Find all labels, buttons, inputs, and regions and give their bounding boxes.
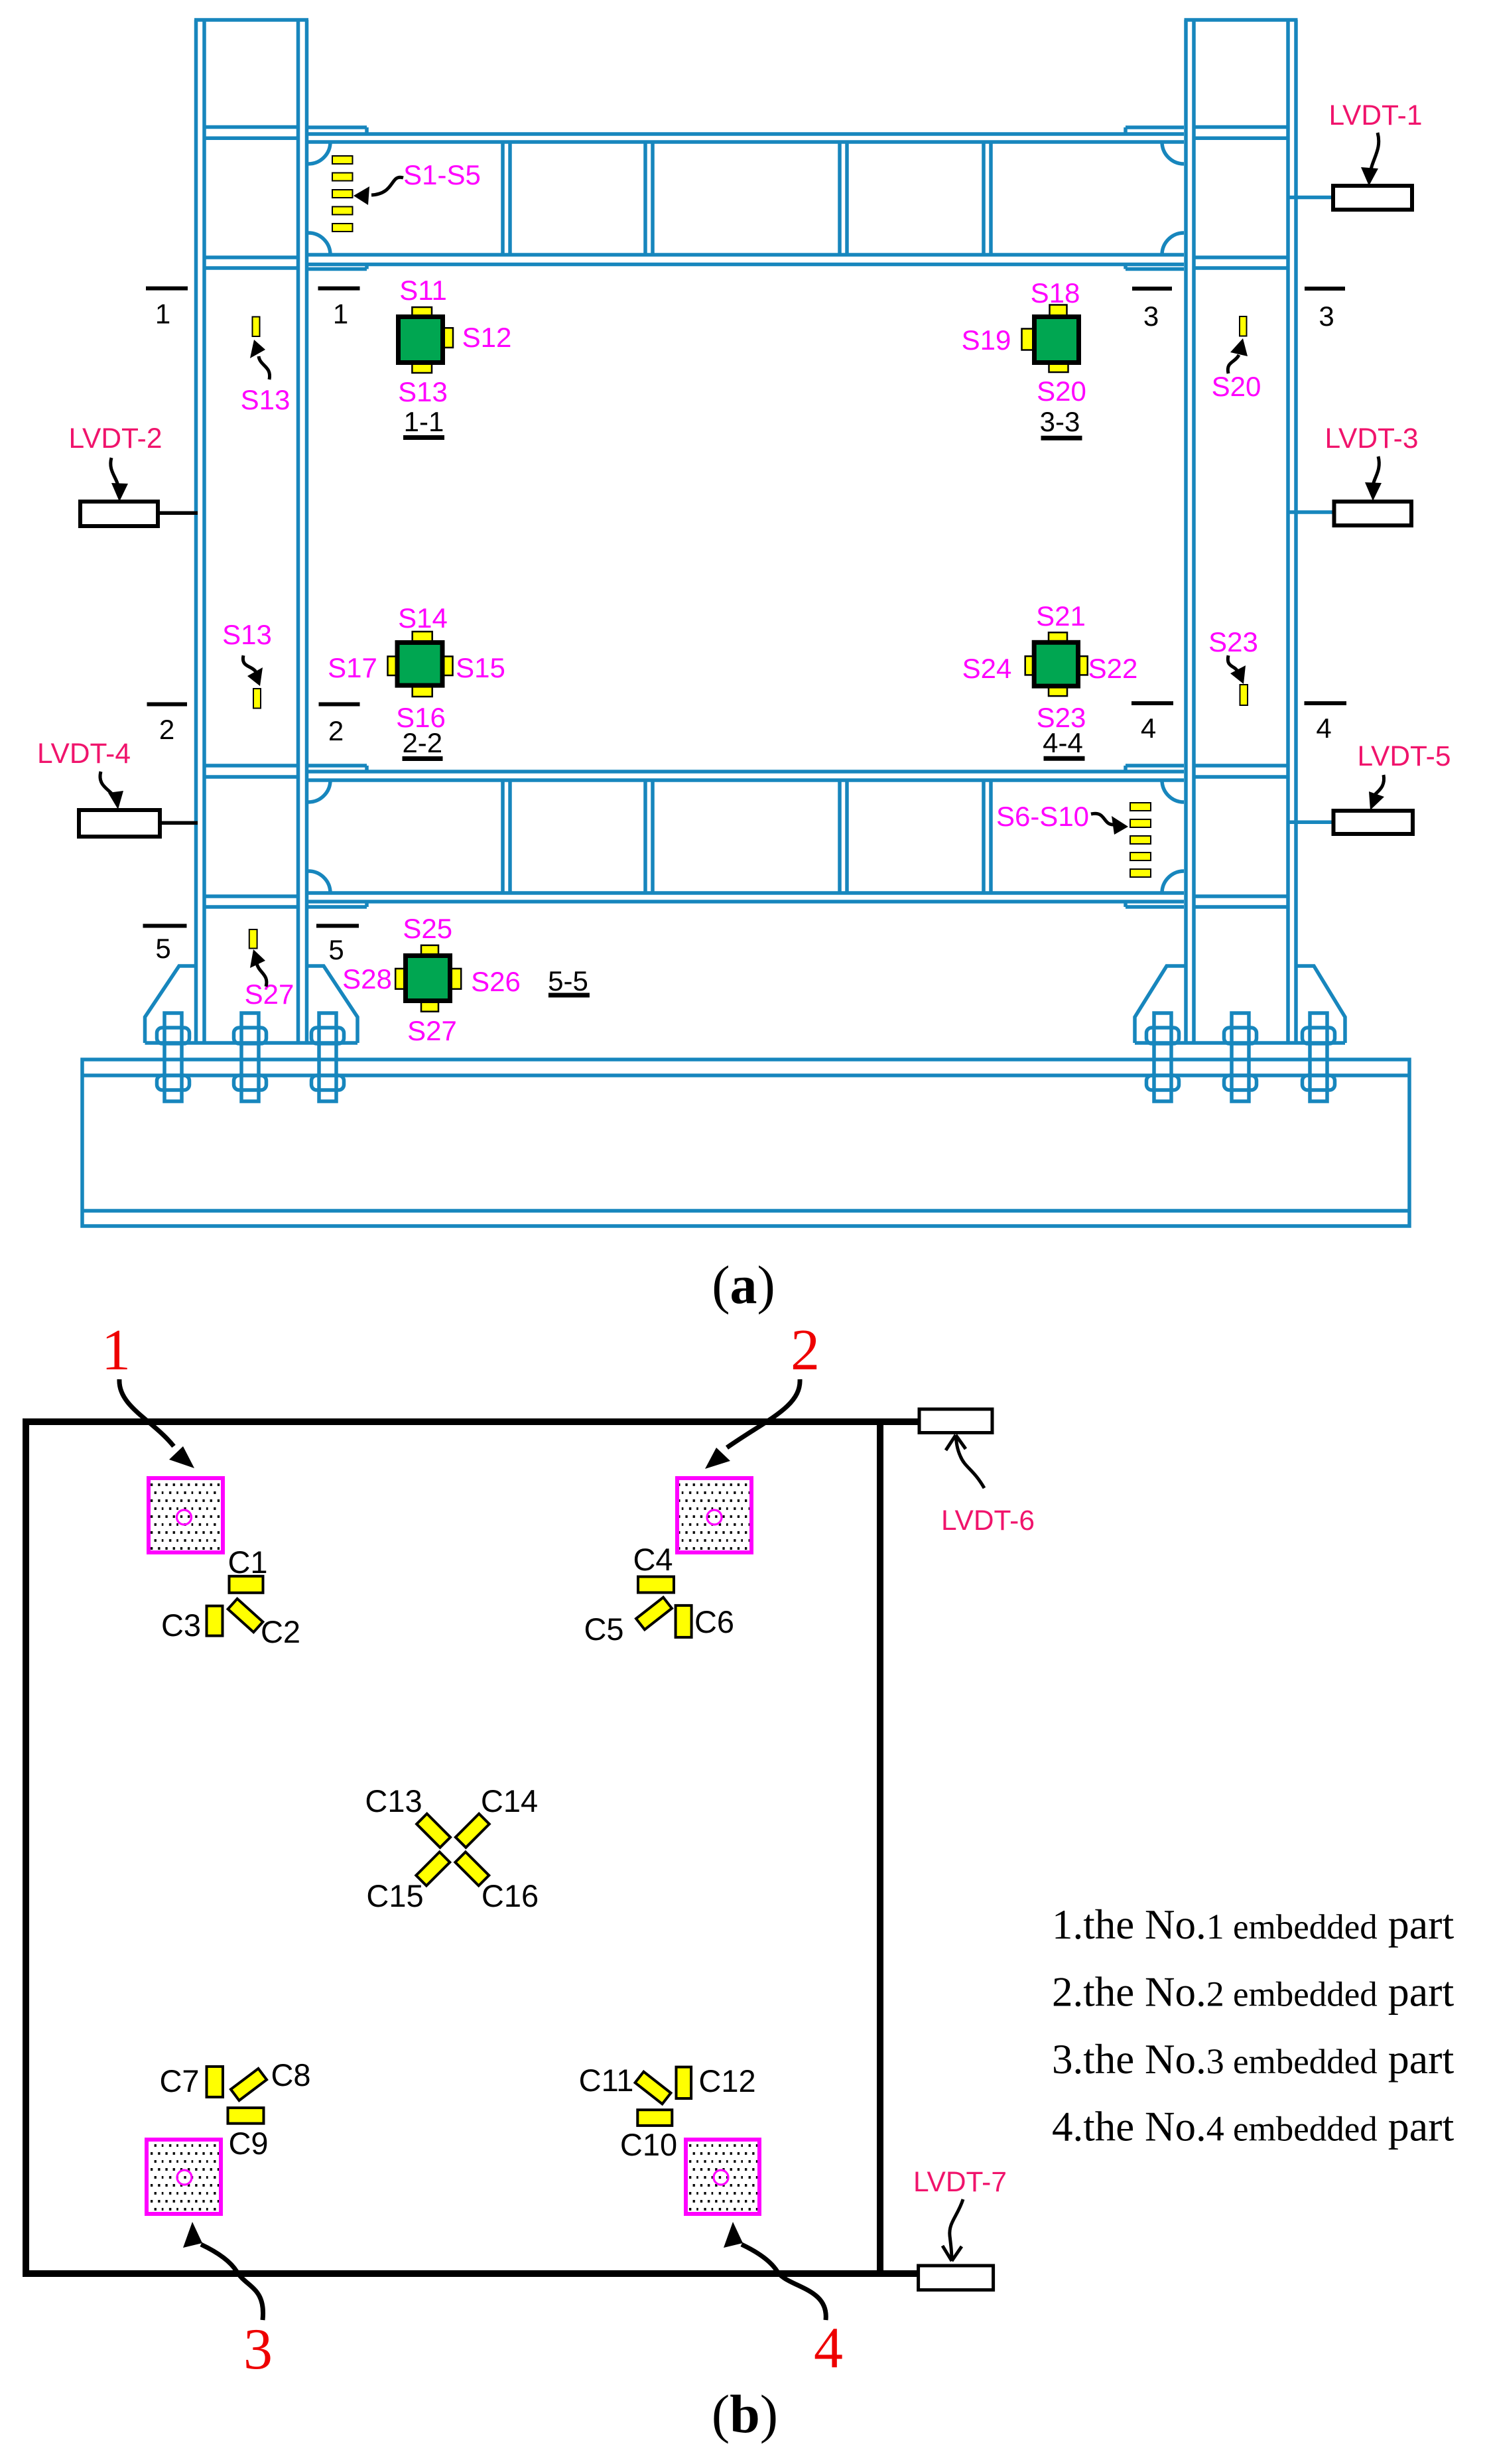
svg-text:2: 2	[159, 714, 174, 745]
gauge C16	[455, 1852, 489, 1885]
svg-text:C1: C1	[227, 1544, 267, 1580]
section mark 2	[147, 703, 188, 707]
svg-text:3: 3	[1319, 301, 1334, 332]
arrow S27	[257, 963, 267, 987]
svg-text:S27: S27	[407, 1015, 457, 1046]
LVDT-7 sensor	[883, 2270, 919, 2277]
svg-text:3: 3	[1143, 301, 1159, 332]
LVDT-3 connector	[1289, 510, 1334, 514]
section view 4-4 green square	[1049, 632, 1067, 643]
svg-text:S1-S5: S1-S5	[403, 159, 481, 190]
gauge C15	[416, 1852, 450, 1885]
strain gauges S6-S10	[1130, 803, 1151, 811]
arrow from 4 to embedded part No.4	[742, 2244, 826, 2320]
column continuity plate lines	[204, 125, 298, 129]
beam web stiffeners	[501, 780, 505, 893]
svg-text:2: 2	[791, 1318, 820, 1383]
svg-text:LVDT-1: LVDT-1	[1329, 100, 1423, 131]
anchor bolt at x=261	[157, 1013, 190, 1101]
svg-text:S13: S13	[241, 384, 291, 415]
svg-text:4: 4	[1141, 713, 1156, 744]
arrow S23	[1228, 655, 1238, 671]
gauge S23 (right column web)	[1240, 685, 1248, 705]
LVDT-6 sensor	[883, 1418, 919, 1425]
arrow from 3 to embedded part No.3	[201, 2244, 263, 2320]
svg-text:3.the No.3 embedded part: 3.the No.3 embedded part	[1052, 2035, 1454, 2083]
anchor bolt at x=377	[234, 1013, 267, 1101]
LVDT-4 arrow	[100, 772, 114, 797]
svg-text:C2: C2	[261, 1614, 300, 1649]
svg-text:5: 5	[328, 934, 344, 965]
section mark 3	[1132, 287, 1172, 291]
svg-text:2.the No.2 embedded part: 2.the No.2 embedded part	[1052, 1968, 1454, 2016]
svg-text:4.the No.4 embedded part: 4.the No.4 embedded part	[1052, 2103, 1454, 2150]
gauge C14	[456, 1814, 489, 1848]
gauge C2	[228, 1599, 263, 1632]
section view 5-5 green square	[421, 945, 438, 956]
gauge C13	[417, 1814, 450, 1848]
svg-text:S26: S26	[471, 966, 521, 997]
svg-text:LVDT-6: LVDT-6	[941, 1505, 1035, 1537]
anchor bolt at x=1870	[1224, 1013, 1257, 1101]
left column	[194, 20, 308, 1043]
section mark 1	[146, 287, 188, 291]
gauge C8	[231, 2069, 267, 2100]
arrow to S6-S10	[1091, 813, 1114, 825]
svg-text:C10: C10	[620, 2127, 677, 2162]
svg-text:C4: C4	[633, 1542, 673, 1577]
svg-text:S11: S11	[399, 275, 447, 306]
anchor bolt at x=1753	[1147, 1013, 1179, 1101]
svg-text:C11: C11	[579, 2063, 634, 2098]
svg-text:C3: C3	[161, 1608, 201, 1643]
section mark 5	[316, 924, 359, 928]
LVDT-3 arrow	[1373, 456, 1380, 490]
svg-text:S21: S21	[1036, 600, 1086, 632]
gauge C4	[638, 1577, 674, 1593]
embedded part No.4	[686, 2140, 759, 2214]
gauge C7	[207, 2067, 224, 2097]
LVDT-5 connector	[1289, 820, 1334, 824]
arrow to S1-S5	[371, 177, 403, 195]
arrow S13 lower	[243, 655, 256, 672]
svg-text:S22: S22	[1088, 653, 1138, 684]
svg-text:LVDT-2: LVDT-2	[69, 423, 162, 454]
svg-text:(b): (b)	[712, 2384, 778, 2444]
LVDT-5 arrow	[1372, 775, 1384, 799]
svg-text:C14: C14	[481, 1783, 538, 1818]
LVDT-2 arrow	[111, 458, 118, 490]
svg-text:S13: S13	[222, 619, 272, 650]
svg-text:S17: S17	[328, 652, 377, 683]
svg-text:3: 3	[243, 2317, 273, 2382]
strain gauges S1-S5	[332, 156, 353, 164]
section view 2-2 green square	[413, 632, 432, 643]
svg-text:1: 1	[101, 1318, 131, 1383]
LVDT-1 arrow	[1370, 133, 1379, 174]
embedded part No.2	[677, 1478, 751, 1552]
svg-text:1-1: 1-1	[404, 406, 444, 437]
arrow S20	[1228, 355, 1239, 374]
section view 3-3 green square	[1050, 305, 1067, 318]
svg-text:S20: S20	[1037, 376, 1086, 407]
svg-text:C7: C7	[159, 2063, 199, 2098]
svg-text:S19: S19	[962, 324, 1011, 356]
gauge S27 (left column web at base)	[249, 929, 257, 949]
svg-text:LVDT-5: LVDT-5	[1358, 741, 1451, 772]
svg-text:S20: S20	[1212, 371, 1261, 402]
gauge C5	[636, 1598, 672, 1630]
anchor bolt at x=1988	[1303, 1013, 1335, 1101]
LVDT-7 arrow	[950, 2199, 963, 2261]
beam web stiffeners	[501, 142, 505, 255]
svg-text:LVDT-4: LVDT-4	[37, 738, 131, 770]
beam end cover plates	[1126, 125, 1184, 129]
section mark 3	[1305, 287, 1345, 291]
left column base gusset and base plate	[145, 966, 358, 1043]
middle beam	[204, 766, 1288, 907]
svg-text:S6-S10: S6-S10	[996, 801, 1089, 832]
svg-text:2-2: 2-2	[402, 727, 442, 758]
section mark 4	[1131, 701, 1173, 705]
gauge C9	[228, 2108, 264, 2124]
beam flange lines	[308, 132, 1184, 136]
LVDT-4 connector	[160, 821, 198, 825]
svg-text:S18: S18	[1031, 277, 1080, 308]
LVDT-1 connector	[1289, 196, 1333, 200]
svg-text:C16: C16	[482, 1878, 539, 1913]
gauge C12	[677, 2067, 692, 2098]
beam end cover plates	[1126, 764, 1184, 768]
svg-text:C9: C9	[228, 2126, 268, 2161]
svg-text:C6: C6	[694, 1604, 734, 1639]
svg-text:C15: C15	[366, 1878, 423, 1913]
section mark 5	[143, 924, 187, 928]
svg-text:LVDT-7: LVDT-7	[913, 2167, 1007, 2198]
gauge C3	[207, 1606, 223, 1636]
svg-text:S28: S28	[342, 963, 392, 994]
gauge C11	[635, 2072, 671, 2104]
column continuity plate lines	[1194, 125, 1288, 129]
svg-text:S12: S12	[462, 322, 512, 353]
arrow S13 upper	[259, 356, 270, 379]
svg-text:S23: S23	[1208, 626, 1258, 657]
LVDT-2 connector	[158, 512, 198, 515]
section view 1-1 green square	[412, 307, 432, 317]
svg-text:S25: S25	[403, 913, 452, 944]
slab outline	[26, 1422, 880, 2274]
joint fillet arcs	[308, 780, 330, 802]
right column	[1185, 20, 1298, 1043]
section mark 1	[318, 287, 360, 291]
foundation base beam	[82, 1060, 1409, 1226]
svg-text:1: 1	[155, 299, 170, 330]
svg-text:(a): (a)	[712, 1255, 775, 1315]
svg-text:C8: C8	[271, 2057, 310, 2092]
beam flange lines	[308, 770, 1184, 774]
gauge C10	[637, 2110, 672, 2126]
svg-text:LVDT-3: LVDT-3	[1325, 423, 1419, 454]
svg-text:S13: S13	[398, 376, 448, 407]
right column base gusset and base plate	[1135, 966, 1345, 1043]
arrow from 1 to embedded part No.1	[119, 1379, 174, 1446]
anchor bolt at x=494	[312, 1013, 344, 1101]
svg-text:S27: S27	[245, 979, 294, 1010]
svg-text:1.the No.1 embedded part: 1.the No.1 embedded part	[1052, 1901, 1454, 1948]
column continuity plate lines	[204, 764, 298, 768]
svg-text:C5: C5	[584, 1611, 623, 1647]
top beam	[204, 127, 1288, 269]
gauge C6	[676, 1606, 692, 1637]
svg-text:1: 1	[333, 299, 348, 330]
joint fillet arcs	[308, 142, 330, 164]
svg-text:S24: S24	[962, 653, 1012, 684]
LVDT-6 arrow	[956, 1435, 984, 1488]
beam end cover plates	[308, 125, 367, 129]
svg-text:2: 2	[328, 715, 344, 746]
beam end cover plates	[308, 764, 367, 768]
embedded part No.1	[149, 1478, 223, 1552]
section mark 4	[1305, 701, 1347, 705]
section mark 2	[319, 703, 360, 707]
svg-text:4: 4	[814, 2316, 843, 2380]
svg-text:C12: C12	[698, 2063, 755, 2098]
gauge S13 lower (left column web)	[253, 689, 261, 709]
column continuity plate lines	[1194, 764, 1288, 768]
svg-text:4: 4	[1316, 713, 1331, 744]
svg-text:4-4: 4-4	[1043, 727, 1083, 758]
svg-text:3-3: 3-3	[1040, 406, 1080, 437]
gauge S20 (right column web)	[1240, 316, 1247, 336]
gauge C1	[229, 1576, 263, 1593]
svg-text:S14: S14	[398, 602, 448, 634]
gauge S13 upper (left column web)	[253, 317, 260, 337]
svg-text:S15: S15	[456, 652, 505, 683]
svg-text:5-5: 5-5	[548, 965, 588, 996]
svg-text:C13: C13	[365, 1783, 422, 1818]
arrow from 2 to embedded part No.2	[727, 1379, 800, 1448]
svg-text:5: 5	[155, 933, 170, 964]
embedded part No.3	[147, 2140, 221, 2214]
